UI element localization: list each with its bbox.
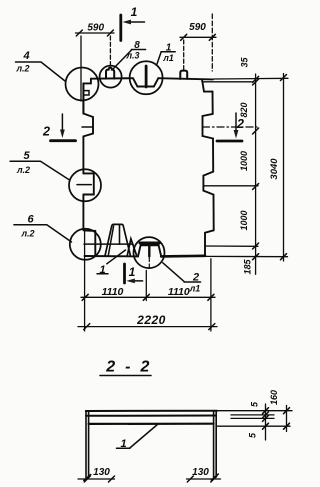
section left wall	[86, 411, 89, 478]
svg-text:160: 160	[269, 390, 279, 405]
label 4 / л.2 with leader	[15, 50, 65, 81]
lifting loop tent B (bottom edge)	[127, 239, 136, 256]
bottom dimension line 1110 + 1110	[81, 231, 215, 332]
svg-text:л.3: л.3	[125, 51, 139, 61]
section mark 2 (right)	[217, 113, 244, 141]
svg-text:5: 5	[250, 401, 260, 407]
section bottom dim 130 (left)	[78, 467, 115, 482]
section slab top line	[86, 410, 217, 412]
svg-text:5: 5	[23, 150, 30, 162]
svg-text:820: 820	[239, 102, 249, 117]
panel bottom edge	[85, 255, 206, 258]
top-left corner notch	[83, 79, 91, 114]
svg-text:1000: 1000	[239, 210, 249, 230]
label 6 / л.2 with leader	[14, 213, 72, 242]
anchor bar U1 (vertical, detail 1)	[145, 66, 148, 87]
lifting loop tent A (bottom edge)	[105, 224, 130, 255]
svg-text:1: 1	[166, 42, 172, 53]
section mark 1 (top)	[121, 5, 145, 41]
dimension 590 (top right)	[180, 14, 216, 71]
bottom-right corner notch	[205, 230, 214, 256]
detail circle 4	[66, 68, 99, 101]
label 1 / л1 with leader	[157, 42, 175, 64]
svg-text:35: 35	[240, 57, 250, 68]
svg-text:2: 2	[42, 125, 50, 139]
left edge notch 1	[82, 114, 93, 137]
detail circle 5	[69, 169, 101, 201]
lifting loop B (top edge right)	[180, 71, 187, 79]
section mark 2 (left)	[42, 114, 75, 141]
svg-text:6: 6	[27, 213, 34, 225]
svg-text:л1: л1	[162, 53, 174, 63]
dimension 590 (top left)	[76, 23, 115, 102]
right dimension 3040	[269, 74, 287, 262]
svg-text:1: 1	[120, 438, 126, 450]
svg-text:л1: л1	[189, 284, 201, 294]
section right wall	[214, 411, 217, 477]
section slab bottom line	[89, 423, 214, 425]
svg-text:2220: 2220	[136, 313, 166, 327]
svg-text:1110: 1110	[168, 286, 190, 298]
right dimension chain 35/820/1000/1000/185	[239, 57, 259, 275]
section right extension lines	[218, 411, 293, 427]
right edge notch 1	[203, 114, 214, 139]
section bottom dim 130 (right)	[187, 467, 221, 482]
bottom-left corner notch	[84, 230, 96, 255]
svg-text:2: 2	[236, 117, 244, 131]
recess with anchor, detail 1 (top edge)	[133, 78, 158, 86]
label 2 / л1 with leader	[163, 263, 201, 294]
svg-text:590: 590	[87, 23, 104, 34]
svg-text:4: 4	[22, 50, 29, 62]
svg-text:л.2: л.2	[20, 229, 34, 239]
item label 1 (bottom loops) with leader	[97, 250, 126, 276]
left edge notch 2	[77, 173, 94, 194]
svg-text:3040: 3040	[269, 158, 280, 180]
section title 2-2	[100, 358, 159, 375]
top-right corner notch	[202, 79, 213, 91]
svg-text:2: 2	[192, 271, 199, 283]
panel right edge	[213, 92, 214, 231]
label 5 / л.2 with leader	[10, 150, 69, 180]
recess with anchor, detail 2 (bottom edge)	[138, 245, 161, 256]
section dim 160	[269, 390, 290, 432]
svg-text:185: 185	[243, 259, 253, 275]
svg-text:130: 130	[93, 467, 110, 478]
detail circle 2	[134, 237, 165, 268]
panel top edge	[91, 78, 213, 79]
svg-text:1000: 1000	[239, 151, 249, 171]
right extension lines	[202, 78, 288, 256]
section dim chain 5/5	[248, 401, 269, 440]
wall foot marks	[84, 474, 219, 481]
svg-text:л.2: л.2	[15, 64, 29, 74]
svg-text:л.2: л.2	[16, 165, 30, 175]
label 8 / л.3 with leader	[113, 40, 146, 69]
detail circle 1	[130, 61, 163, 94]
item label 1 (slab) with leader	[117, 424, 159, 450]
right edge notch 2	[203, 172, 213, 195]
section slab middle line	[86, 415, 216, 417]
svg-text:1: 1	[129, 265, 136, 279]
svg-text:130: 130	[192, 467, 209, 478]
svg-text:8: 8	[134, 40, 140, 51]
detail circle 8	[100, 66, 122, 88]
detail circle 6	[70, 229, 101, 260]
svg-text:2-2: 2-2	[105, 358, 159, 375]
svg-text:5: 5	[248, 432, 258, 438]
section mark 1 (bottom)	[125, 264, 143, 283]
hidden edge line through bottom notch and tents	[84, 243, 133, 245]
panel left edge	[82, 83, 84, 230]
bottom dimension line 2220	[78, 313, 217, 330]
lifting loop A (top edge, in detail circle 8)	[106, 68, 114, 79]
svg-text:1110: 1110	[102, 286, 124, 298]
svg-text:590: 590	[189, 22, 206, 33]
svg-text:1: 1	[131, 5, 138, 19]
svg-text:1: 1	[99, 264, 105, 276]
anchor plate T (detail 2)	[140, 243, 159, 267]
